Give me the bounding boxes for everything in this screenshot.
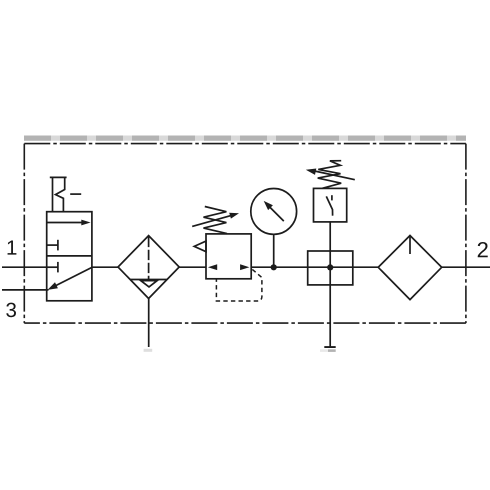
regulator R1 adjustment arrow [192, 213, 239, 227]
port 3 label [6, 303, 16, 318]
wire: filter to regulator [179, 266, 206, 268]
lubricator L1 [378, 236, 442, 300]
pressure switch S1 spring [318, 161, 342, 189]
port 1 label [8, 240, 17, 254]
junction dot in block [327, 264, 333, 270]
pressure switch S1 stem [329, 222, 331, 251]
pressure switch S1 adjustment arrow [306, 169, 355, 180]
enclosure dash-dot boundary [24, 144, 466, 324]
port 2 label [478, 242, 488, 257]
exhaust gray marks [320, 349, 328, 352]
pressure gauge G1 dial [251, 189, 297, 235]
regulator R1 flow arrows [208, 264, 217, 270]
regulator R1 relief vent triangle [194, 241, 206, 252]
junction dot at gauge tee [271, 264, 277, 270]
exhaust end bar [324, 346, 335, 348]
wire: regulator to lubricator (through gauge tee and switch block) [251, 266, 378, 268]
filter F1 element (dashed) [148, 237, 150, 280]
regulator R1 adjustment spring [204, 207, 228, 234]
pressure gauge G1 stem [273, 234, 275, 267]
filter F1 drain line [148, 299, 150, 348]
valve V1 closed-position blocked port (T) [47, 262, 58, 273]
pressure regulator R1 body [206, 234, 251, 279]
valve V1 open-position flow arrow [47, 220, 91, 226]
enclosure top gray band [24, 136, 466, 141]
pressure switch S1 box [314, 188, 347, 222]
distribution block [308, 251, 353, 285]
on-off valve V1 body [47, 212, 92, 301]
valve V1 open-position blocked port (T) [47, 240, 58, 251]
filter with water separator F1 [118, 236, 179, 299]
regulator R1 pilot feedback dashed line [216, 269, 262, 301]
filter F1 drain cone [141, 281, 158, 287]
valve V1 closed-position exhaust diagonal with arrow [48, 267, 92, 290]
port 3 line [2, 289, 49, 291]
port 1 line [2, 266, 47, 268]
filter F1 drain mark [144, 349, 153, 352]
wire: lubricator to port 2 [442, 266, 490, 268]
pressure gauge G1 needle [264, 201, 284, 221]
valve V1 manual detent actuator [50, 177, 81, 211]
wire: valve to filter [92, 266, 119, 268]
pressure switch S1 contact [326, 195, 332, 216]
lubricator L1 oil drip line [409, 236, 411, 254]
filter F1 separator baffle [130, 279, 167, 281]
block vertical line to exhaust [329, 251, 331, 347]
